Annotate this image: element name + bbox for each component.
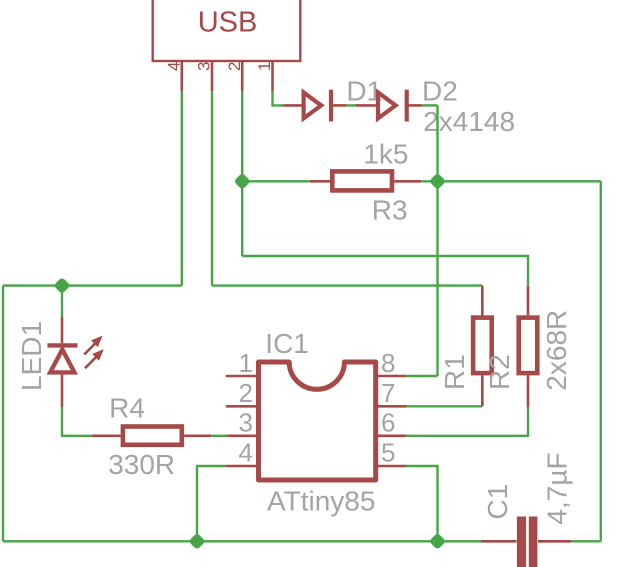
junction LED top [53,277,70,294]
wire pin3 vertical [211,91,213,286]
wire R3 left red stub [310,180,330,183]
wire R3 right red stub [394,180,421,183]
svg-text:ATtiny85: ATtiny85 [267,486,375,517]
svg-text:330R: 330R [108,449,175,480]
junction R3 right [429,173,446,190]
wire right edge vertical [600,181,602,541]
USB pin 4 stub [181,61,184,91]
wire pin6 to R2 bottom [406,407,528,436]
resistor R3 [332,171,392,190]
svg-text:4: 4 [239,438,253,468]
IC pin 1 stub [226,375,258,378]
svg-text:4: 4 [165,62,184,71]
svg-text:1: 1 [239,348,253,378]
wire C1 left red stub [481,540,517,543]
IC pin 5 stub [376,465,406,468]
svg-text:C1: C1 [482,484,513,520]
svg-text:2: 2 [239,378,253,408]
IC pin 3 stub [227,434,258,437]
wire R4 left red stub [92,434,121,437]
resistor R1 [473,286,492,407]
LED arrow 1 [84,336,102,355]
wire C1 right green [571,540,601,542]
IC pin 7 stub [376,405,406,408]
wire VCC to right edge [438,180,601,182]
svg-text:D2: D2 [422,76,458,107]
resistor R2 [519,286,538,407]
svg-text:2x68R: 2x68R [541,310,572,391]
wire between D1 and D2 [346,104,355,106]
wire R4 right red stub [184,434,211,437]
svg-text:USB: USB [198,7,258,39]
junction GND 1 [188,533,205,550]
USB connector box [153,0,301,61]
wire GND left vertical [2,286,4,542]
svg-text:3: 3 [195,62,214,71]
svg-text:LED1: LED1 [16,321,47,391]
wire R3 right green [421,180,437,182]
wire VCC vertical (D2 down to IC pin8) [436,105,438,376]
wire red stub into D1 anode [284,104,302,107]
wire pin3 horizontal to R1 [212,284,482,286]
wire pin4 to GND [197,466,226,541]
junction GND 2 [429,533,446,550]
wire R3 left green [242,180,310,182]
wire D2 to VCC node [422,104,437,106]
svg-text:6: 6 [381,408,395,438]
diode D2 [355,90,422,122]
svg-text:IC1: IC1 [265,328,309,359]
wire pin2 vertical [241,91,243,256]
resistor R4 [123,427,182,445]
svg-text:1: 1 [255,62,274,71]
svg-text:2: 2 [225,62,244,71]
wire GND bottom [3,540,481,542]
LED1 [47,286,77,407]
svg-text:R1: R1 [439,354,470,390]
USB pin 3 stub [211,61,214,91]
svg-text:R3: R3 [372,195,408,226]
IC pin 8 stub [376,375,406,378]
svg-text:1k5: 1k5 [363,139,408,170]
svg-text:8: 8 [381,348,395,378]
IC pin 6 stub [376,434,406,437]
wire pin7 to R1 bottom [406,405,482,407]
svg-text:R4: R4 [109,393,145,424]
wire C1 right red stub [538,540,571,543]
USB pin 1 stub [271,61,274,91]
LED arrow 2 [85,349,104,368]
IC pin 4 stub [226,465,258,468]
svg-text:7: 7 [381,378,395,408]
wire pin1 down to diode row [273,91,284,105]
IC1 body [259,362,376,480]
wire pin8 to VCC vertical [406,375,438,377]
wire LED bottom [62,407,92,436]
svg-text:4,7µF: 4,7µF [542,452,573,524]
wire R4 to IC pin3 green [211,435,227,437]
diode D1 [304,90,347,122]
wire pin2 horizontal to R2 [242,256,528,286]
wire pin5 down to GND [406,466,438,541]
USB pin 2 stub [241,61,244,91]
capacitor C1 [517,517,537,567]
svg-text:5: 5 [381,438,395,468]
IC pin 2 stub [226,405,258,408]
svg-text:3: 3 [239,408,253,438]
wire pin4 horizontal left [3,284,182,286]
junction R3 left [234,173,251,190]
wire pin4 vertical [181,91,183,286]
svg-text:R2: R2 [484,354,515,390]
